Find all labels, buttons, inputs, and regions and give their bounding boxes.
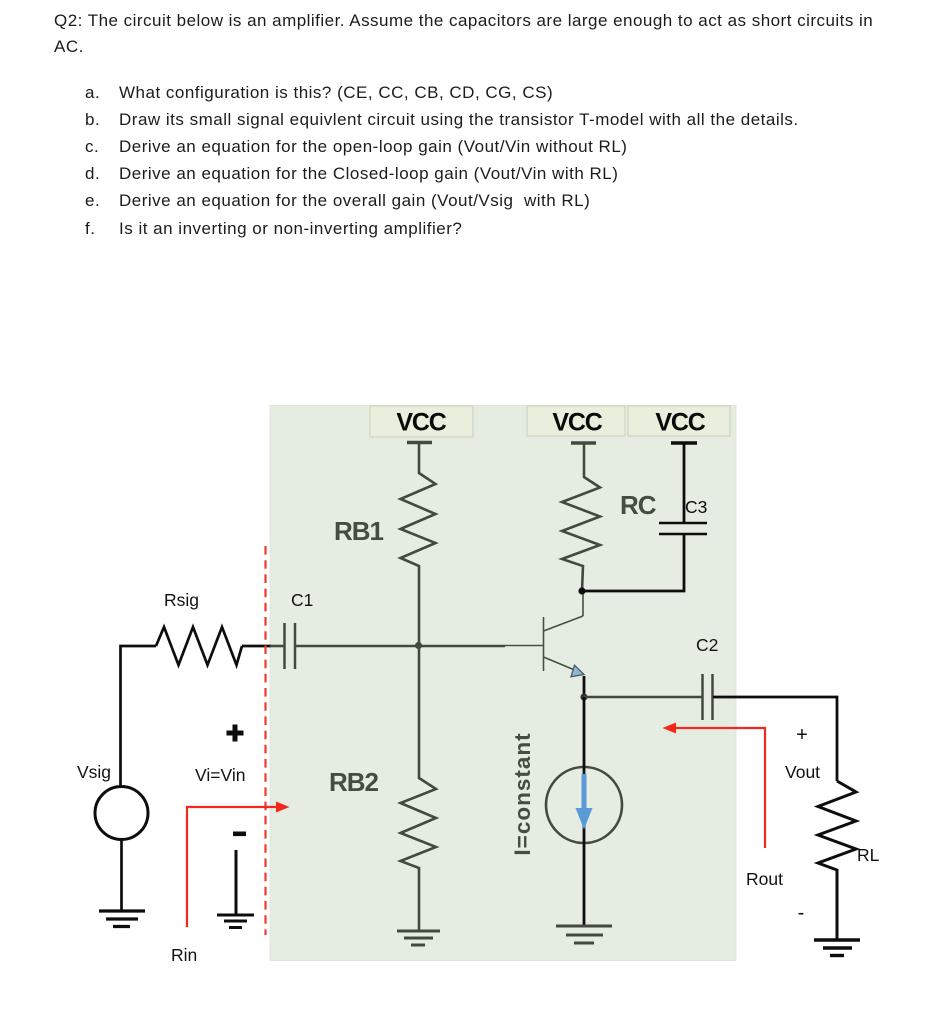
- svg-text:Vsig: Vsig: [77, 762, 111, 782]
- ground (input reference): [235, 850, 238, 915]
- wire: Vsig to ground: [120, 840, 123, 912]
- resistor RB1: [401, 443, 436, 646]
- svg-text:Rin: Rin: [171, 945, 197, 965]
- node A (base node, RB1/RB2/base junction): [415, 642, 422, 649]
- VCC label box 3: [628, 406, 730, 436]
- VCC label box 1: [370, 406, 473, 437]
- svg-text:VCC: VCC: [655, 409, 705, 437]
- node B (collector node): [578, 587, 585, 594]
- wire: Rsig branch (black, left of panel): [121, 646, 157, 786]
- svg-text:-: -: [798, 902, 805, 924]
- transistor Q1 (NPN): [544, 592, 584, 671]
- VCC terminal bar 2: [571, 441, 596, 444]
- ground under Vsig: [99, 911, 145, 927]
- wire: emitter to node C: [583, 676, 586, 697]
- wire: collector node to C3 branch: [582, 534, 684, 591]
- svg-text:RC: RC: [620, 490, 657, 520]
- wire: node to transistor base (thin): [505, 645, 543, 647]
- ground under RL: [814, 940, 860, 956]
- svg-text:Rsig: Rsig: [164, 590, 199, 610]
- current source blue arrow: [582, 774, 587, 810]
- svg-text:I=constant: I=constant: [510, 732, 535, 855]
- svg-text:Vi=Vin: Vi=Vin: [195, 765, 245, 785]
- wire: emitter node to C2: [584, 696, 702, 699]
- VCC terminal bar 3 (black): [671, 441, 697, 444]
- wire: C1 to base node: [295, 645, 505, 648]
- current source I1 (circle): [546, 767, 622, 843]
- ground under current source: [556, 926, 612, 943]
- green schematic background panel: [270, 406, 736, 961]
- red arrow Rout (pointing left): [676, 728, 765, 848]
- source Vsig (circle): [95, 787, 148, 840]
- transistor emitter arrowhead: [571, 665, 584, 677]
- svg-text:RL: RL: [857, 845, 880, 865]
- VCC terminal bar 1: [407, 441, 432, 444]
- resistor Rsig: [156, 627, 242, 665]
- wire: C2 to output corner and down to RL: [713, 697, 837, 781]
- svg-text:VCC: VCC: [552, 409, 602, 437]
- wire: C3 to VCC3: [683, 443, 686, 523]
- svg-text:Vout: Vout: [785, 762, 820, 782]
- ground under RB2: [397, 931, 440, 945]
- svg-text:RB1: RB1: [334, 516, 384, 546]
- minus sign (input polarity): [233, 832, 246, 837]
- VCC label box 2: [527, 406, 625, 436]
- resistor RB2: [401, 645, 437, 931]
- red dashed input boundary line: [264, 546, 266, 935]
- wire: emitter node through current source to ground: [583, 697, 586, 926]
- svg-text:C3: C3: [685, 497, 707, 517]
- resistor RC: [562, 443, 600, 591]
- svg-text:Rout: Rout: [746, 869, 783, 889]
- capacitor C2: [703, 674, 713, 720]
- svg-text:C1: C1: [291, 590, 313, 610]
- svg-text:VCC: VCC: [396, 409, 446, 437]
- svg-text:C2: C2: [696, 635, 718, 655]
- svg-text:RB2: RB2: [329, 767, 379, 797]
- svg-text:+: +: [796, 724, 808, 746]
- capacitor C3: [659, 523, 707, 534]
- node C (emitter node): [580, 693, 587, 700]
- capacitor C1: [285, 623, 296, 669]
- red arrow Rin (pointing right): [187, 807, 276, 927]
- plus sign (input polarity): [227, 725, 244, 742]
- resistor RL: [818, 781, 856, 940]
- wire: Rsig to C1: [242, 645, 271, 648]
